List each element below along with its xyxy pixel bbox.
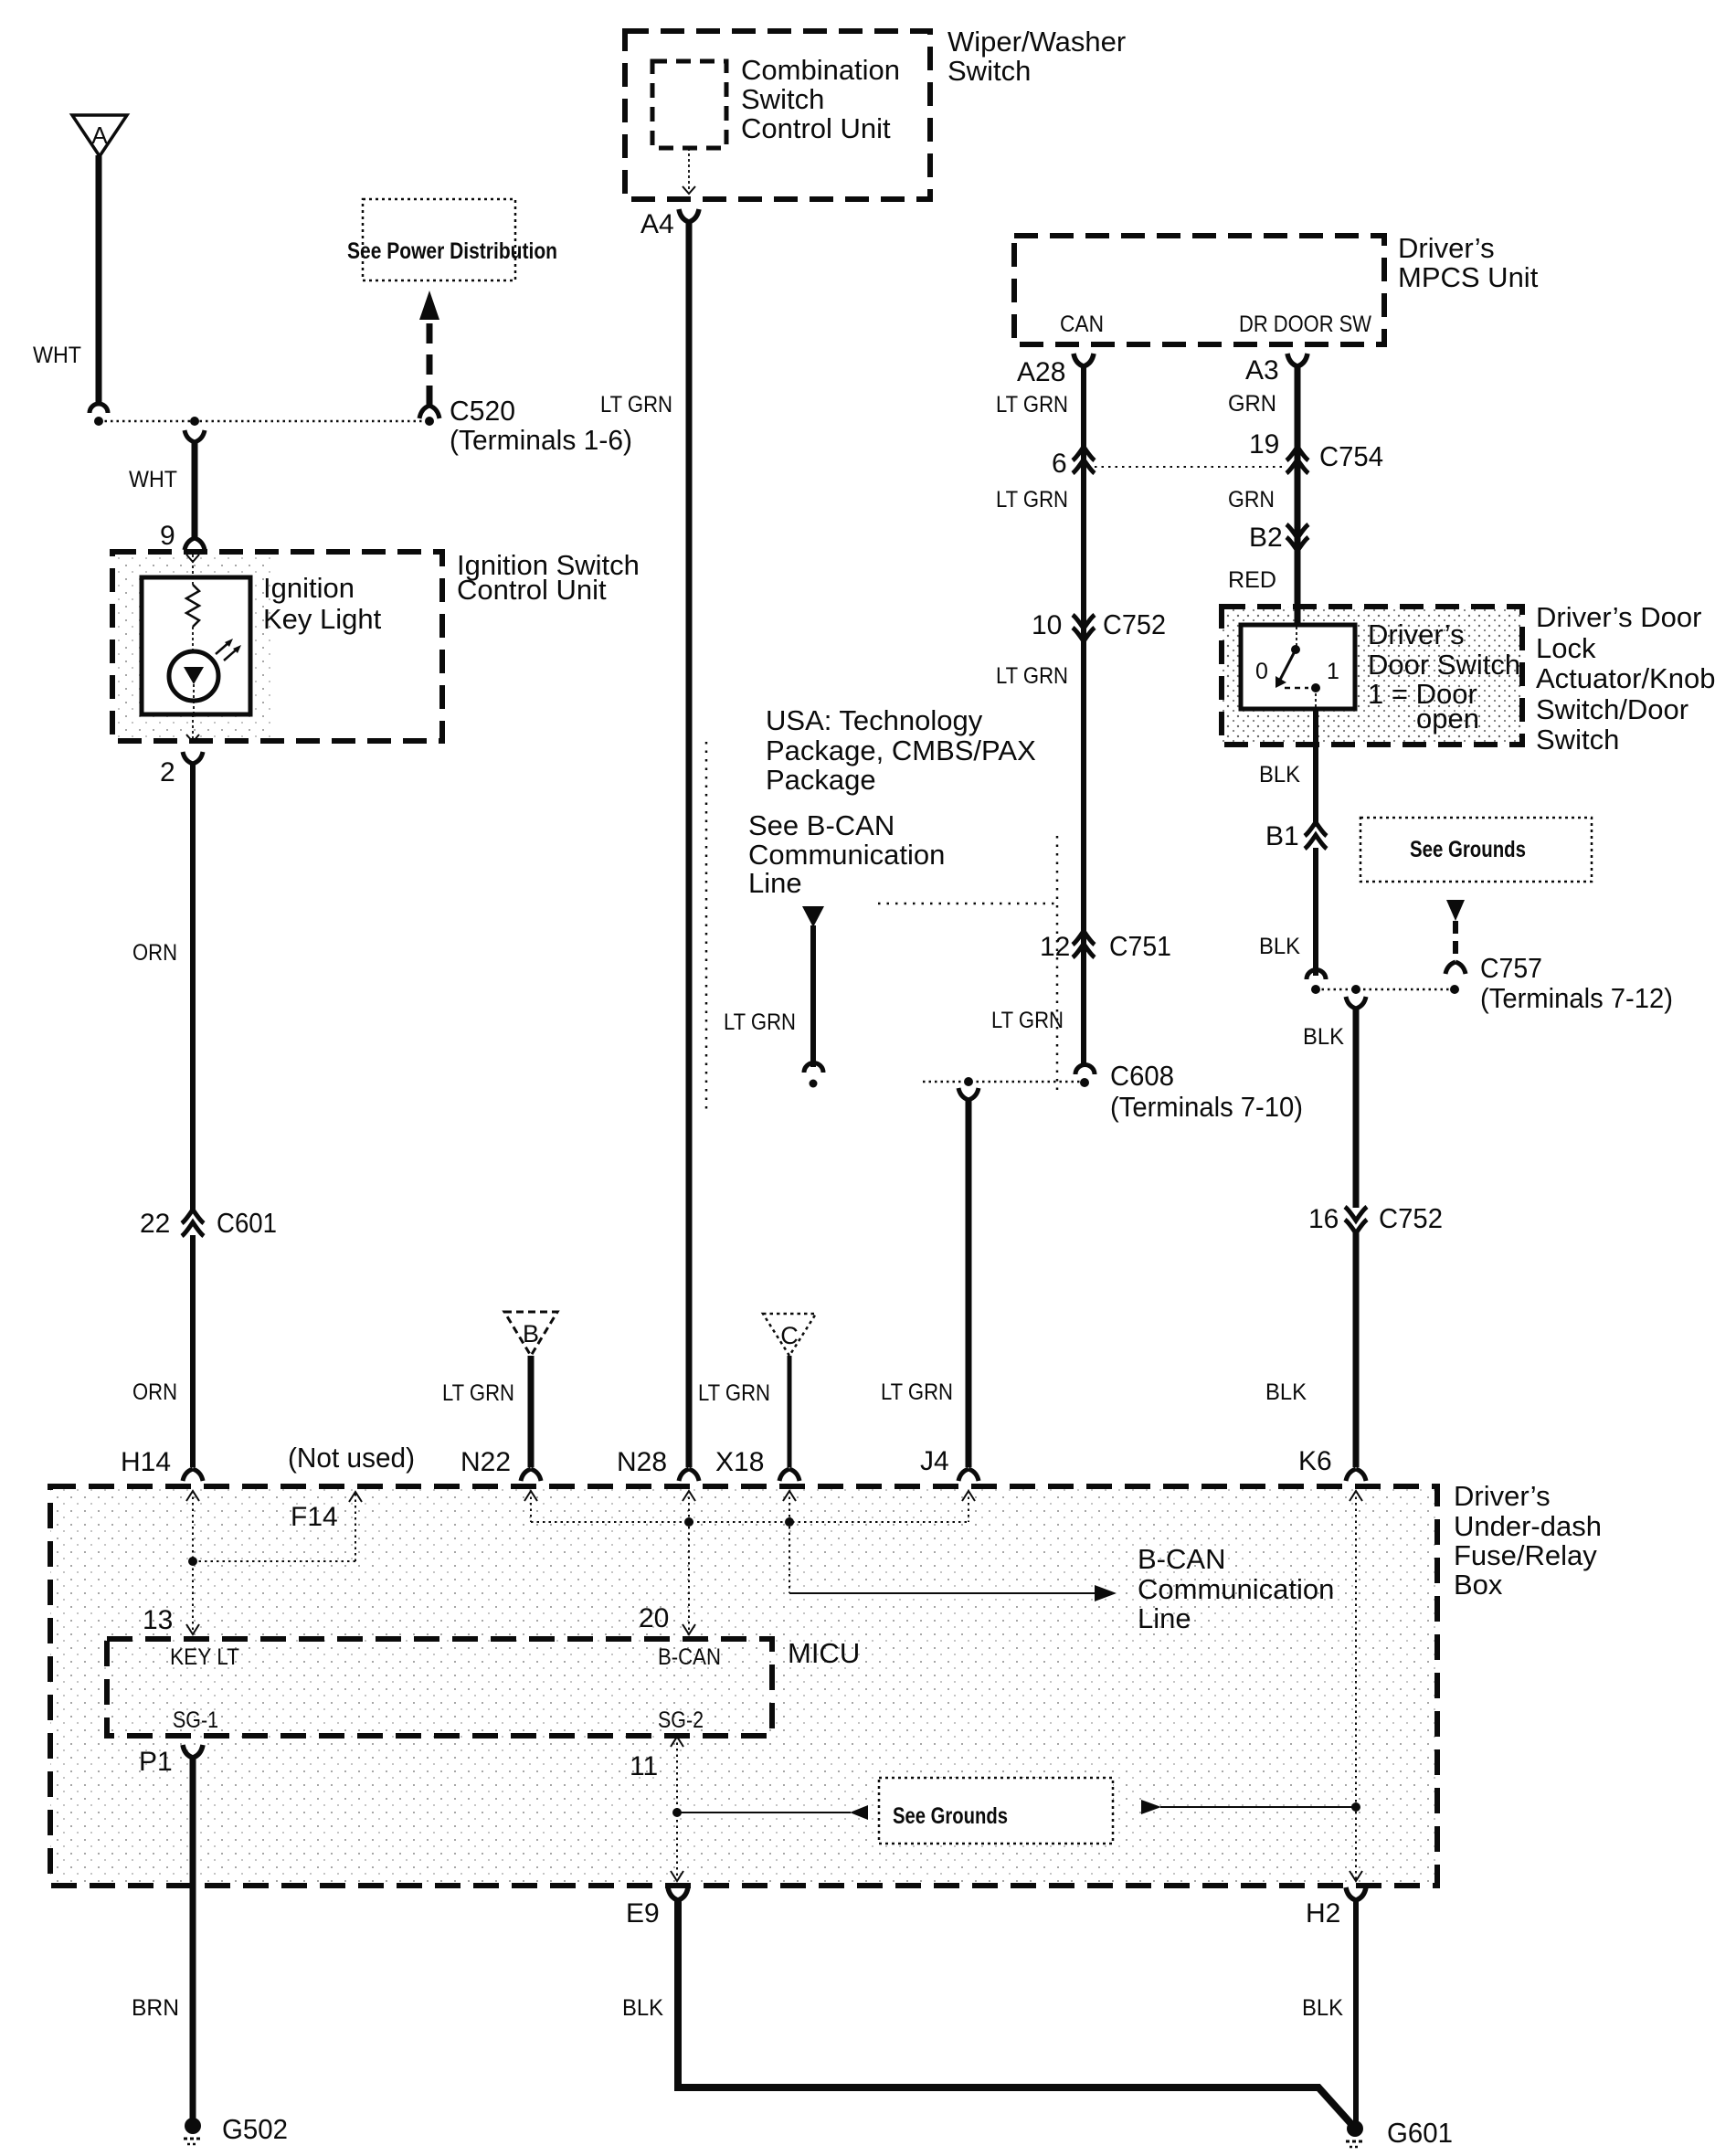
svg-text:19: 19 [1249, 429, 1279, 460]
connector 19 C754 [1249, 429, 1383, 473]
wire LT GRN 12 to C608 [991, 1008, 1095, 1087]
ground G601 [1346, 2117, 1453, 2149]
svg-text:LT GRN: LT GRN [996, 487, 1068, 513]
svg-text:F14: F14 [291, 1502, 338, 1532]
wire K6 to H2 dotted [1350, 1491, 1362, 1881]
svg-text:12: 12 [1040, 932, 1070, 962]
node C757 dotted junction [1316, 985, 1455, 994]
combination switch control unit [652, 54, 900, 194]
svg-text:DR DOOR SW: DR DOOR SW [1239, 312, 1371, 337]
svg-text:C751: C751 [1109, 930, 1171, 962]
pin A4 [640, 209, 699, 239]
svg-text:BLK: BLK [1303, 1024, 1344, 1050]
svg-text:RED: RED [1228, 567, 1276, 593]
svg-text:G601: G601 [1387, 2117, 1453, 2149]
svg-text:C752: C752 [1103, 608, 1166, 640]
svg-text:E9: E9 [626, 1898, 660, 1929]
ignition key light lamp [142, 555, 382, 714]
svg-text:Control Unit: Control Unit [741, 112, 891, 144]
pin H2 [1306, 1887, 1366, 1929]
svg-text:LT GRN: LT GRN [996, 663, 1068, 689]
pin H14 [121, 1447, 171, 1477]
wire B-CAN communication line arrow [789, 1543, 1334, 1634]
pin F14 (Not used) [288, 1442, 415, 1532]
svg-text:B-CAN: B-CAN [1138, 1543, 1225, 1575]
wire LT GRN C608 to J4 [881, 1088, 979, 1481]
svg-text:WHT: WHT [33, 343, 81, 368]
svg-text:ORN: ORN [132, 1379, 177, 1405]
svg-text:Communication: Communication [748, 839, 945, 871]
svg-text:H2: H2 [1306, 1898, 1340, 1929]
connector triangle C [763, 1314, 816, 1356]
svg-text:A: A [91, 122, 108, 149]
svg-text:BLK: BLK [1302, 1995, 1343, 2021]
connector 16 C752 [1308, 1202, 1443, 1234]
svg-text:KEY LT: KEY LT [170, 1644, 239, 1670]
wire link 6 to C754 dotted [1095, 466, 1286, 468]
svg-text:LT GRN: LT GRN [698, 1380, 770, 1406]
svg-text:C608: C608 [1110, 1060, 1174, 1092]
pin 13 [143, 1605, 173, 1635]
svg-text:9: 9 [160, 521, 175, 551]
svg-text:GRN: GRN [1228, 487, 1275, 513]
pin J4 [920, 1446, 949, 1476]
svg-text:Actuator/Knob: Actuator/Knob [1536, 662, 1715, 694]
svg-text:BRN: BRN [132, 1995, 179, 2021]
connector 10 C752 [1032, 608, 1166, 641]
svg-text:See B-CAN: See B-CAN [748, 809, 894, 841]
svg-text:SG-2: SG-2 [658, 1707, 704, 1733]
svg-text:WHT: WHT [129, 467, 177, 492]
Driver's MPCS Unit box [1014, 232, 1539, 344]
See Grounds box upper [1360, 818, 1592, 882]
svg-text:C754: C754 [1319, 440, 1383, 472]
svg-text:Switch/Door: Switch/Door [1536, 693, 1688, 725]
svg-text:16: 16 [1308, 1204, 1339, 1234]
wire N22 N28 X18 J4 dotted bus [524, 1491, 975, 1634]
MICU box [107, 1637, 860, 1736]
Wiper/Washer Switch box [625, 26, 1126, 199]
driver's door switch [1241, 607, 1520, 735]
Driver's Under-dash Fuse/Relay Box [50, 1480, 1602, 1886]
svg-text:6: 6 [1052, 449, 1067, 479]
connector triangle A [72, 115, 127, 156]
connector B2 [1249, 523, 1308, 553]
Driver's Door Lock Actuator box [1222, 601, 1715, 756]
pin N28 [617, 1447, 667, 1477]
wire BLK E9 to G601 [622, 1900, 1351, 2124]
svg-text:(Terminals 1-6): (Terminals 1-6) [450, 424, 632, 456]
svg-text:Key Light: Key Light [263, 603, 382, 635]
wire BLK junction to 16 [1303, 997, 1366, 1208]
svg-text:Combination: Combination [741, 54, 900, 86]
svg-text:J4: J4 [920, 1446, 949, 1476]
svg-text:Package: Package [766, 764, 876, 796]
svg-text:CAN: CAN [1060, 312, 1104, 337]
svg-text:Wiper/Washer: Wiper/Washer [947, 26, 1126, 58]
pin P1 [139, 1745, 203, 1777]
svg-text:C757: C757 [1480, 952, 1542, 984]
svg-text:B1: B1 [1265, 821, 1299, 851]
svg-text:1: 1 [1327, 659, 1339, 684]
svg-text:C752: C752 [1379, 1202, 1443, 1234]
svg-text:C: C [780, 1322, 799, 1349]
svg-text:Box: Box [1454, 1569, 1503, 1601]
svg-text:Control Unit: Control Unit [457, 574, 607, 606]
svg-text:LT GRN: LT GRN [996, 392, 1068, 417]
svg-text:A3: A3 [1245, 355, 1279, 386]
svg-text:(Not used): (Not used) [288, 1442, 415, 1474]
svg-text:See Grounds: See Grounds [1410, 837, 1526, 862]
svg-text:BLK: BLK [1259, 934, 1300, 959]
svg-text:Door Switch: Door Switch [1368, 649, 1520, 681]
wire LT GRN C to X18 [698, 1356, 799, 1481]
wire to see grounds left [677, 1805, 868, 1820]
pin E9 [626, 1887, 688, 1929]
svg-text:BLK: BLK [1259, 762, 1300, 787]
svg-text:Package, CMBS/PAX: Package, CMBS/PAX [766, 735, 1036, 766]
pin A28 [1017, 354, 1094, 387]
connector 12 C751 [1040, 930, 1171, 962]
wire to see grounds right [1141, 1800, 1356, 1814]
svg-text:A4: A4 [640, 209, 674, 239]
svg-text:0: 0 [1255, 659, 1268, 684]
svg-text:Lock: Lock [1536, 632, 1596, 664]
svg-text:(Terminals 7-10): (Terminals 7-10) [1110, 1091, 1303, 1123]
svg-text:B: B [523, 1320, 539, 1347]
connector B1 [1265, 821, 1327, 851]
connector triangle B [504, 1312, 557, 1356]
svg-text:22: 22 [140, 1209, 170, 1239]
node C608 dotted junction [923, 1060, 1303, 1123]
svg-text:LT GRN: LT GRN [442, 1380, 514, 1406]
svg-text:B2: B2 [1249, 523, 1283, 553]
wire H14 to pin 13 with F14 branch [186, 1491, 362, 1634]
wire C520 dotted bus [99, 417, 434, 426]
svg-text:LT GRN: LT GRN [724, 1009, 796, 1035]
svg-text:N22: N22 [460, 1447, 511, 1477]
svg-text:11: 11 [630, 1751, 658, 1781]
wire GRN A3 to C754 [1228, 366, 1297, 607]
svg-text:Switch: Switch [741, 83, 824, 115]
svg-text:See Grounds: See Grounds [893, 1803, 1008, 1829]
wire LT GRN 6 to 10 [996, 487, 1068, 513]
svg-text:open: open [1416, 703, 1479, 735]
svg-text:C601: C601 [217, 1207, 277, 1239]
svg-text:Driver’s: Driver’s [1398, 232, 1495, 264]
Ignition Switch Control Unit box [112, 549, 640, 741]
node USA technology package region [706, 704, 1057, 1109]
wire See B-CAN communication line [724, 809, 945, 1088]
svg-text:LT GRN: LT GRN [991, 1008, 1064, 1033]
pin A3 [1245, 354, 1307, 386]
svg-text:MICU: MICU [788, 1637, 860, 1669]
svg-text:X18: X18 [715, 1447, 764, 1477]
svg-text:20: 20 [639, 1603, 669, 1633]
wire LT GRN A4 to N28 [600, 222, 699, 1481]
ground G502 [184, 2113, 288, 2145]
wire LT GRN A28 to 6 [996, 366, 1084, 1066]
svg-text:Line: Line [1138, 1602, 1191, 1634]
wire WHT from A [33, 155, 108, 426]
svg-text:Driver’s Door: Driver’s Door [1536, 601, 1701, 633]
svg-text:Fuse/Relay: Fuse/Relay [1454, 1539, 1597, 1571]
connector C757 with arrow from grounds [1445, 900, 1673, 1014]
svg-text:Communication: Communication [1138, 1573, 1334, 1605]
pin 20 [639, 1603, 669, 1633]
wire BLK H2 to G601 [1302, 1900, 1356, 2121]
svg-text:LT GRN: LT GRN [881, 1379, 953, 1405]
wire GRN C754 to B2 [1228, 487, 1275, 513]
wire RED B2 to door switch [1228, 567, 1276, 593]
svg-text:K6: K6 [1298, 1446, 1332, 1476]
pin 2 [160, 714, 203, 787]
svg-text:B-CAN: B-CAN [658, 1644, 721, 1670]
svg-text:MPCS Unit: MPCS Unit [1398, 261, 1539, 293]
wire BLK door switch to B1 [1259, 709, 1316, 827]
wire LT GRN 10 to 12 [996, 663, 1068, 689]
wire ORN lower to H14 [132, 1235, 203, 1481]
pin N22 [460, 1447, 511, 1477]
svg-text:2: 2 [160, 757, 175, 787]
wire LT GRN B to N22 [442, 1356, 541, 1481]
wire BRN P1 to G502 [132, 1758, 193, 2119]
svg-text:Driver’s: Driver’s [1368, 618, 1465, 650]
pin X18 [715, 1447, 764, 1477]
svg-text:G502: G502 [222, 2113, 288, 2145]
wire BLK B1 to C757 junction [1259, 848, 1326, 994]
wire BLK 16 to K6 [1265, 1231, 1366, 1481]
svg-text:See Power Distribution: See Power Distribution [347, 238, 557, 264]
svg-text:A28: A28 [1017, 357, 1065, 387]
svg-text:Ignition: Ignition [263, 572, 355, 604]
svg-text:P1: P1 [139, 1747, 173, 1777]
svg-text:Line: Line [748, 867, 802, 899]
svg-text:Under-dash: Under-dash [1454, 1510, 1602, 1542]
svg-text:C520: C520 [450, 395, 515, 427]
svg-text:SG-1: SG-1 [173, 1707, 218, 1733]
svg-text:13: 13 [143, 1605, 173, 1635]
svg-text:Driver’s: Driver’s [1454, 1480, 1551, 1512]
See Grounds box lower [879, 1778, 1113, 1844]
connector 22 C601 [140, 1207, 277, 1239]
pin K6 [1298, 1446, 1332, 1476]
See Power Distribution box [347, 199, 557, 280]
svg-text:GRN: GRN [1228, 391, 1276, 417]
svg-text:10: 10 [1032, 610, 1062, 640]
svg-text:N28: N28 [617, 1447, 667, 1477]
svg-text:Switch: Switch [1536, 724, 1619, 756]
svg-text:BLK: BLK [1265, 1379, 1307, 1405]
svg-text:Switch: Switch [947, 55, 1031, 87]
connector 6 [1052, 447, 1095, 479]
svg-text:USA: Technology: USA: Technology [766, 704, 983, 736]
wire WHT to pin 9 [129, 430, 205, 551]
wire ORN upper [132, 764, 193, 1210]
svg-text:H14: H14 [121, 1447, 171, 1477]
svg-text:(Terminals 7-12): (Terminals 7-12) [1480, 982, 1673, 1014]
svg-text:ORN: ORN [132, 940, 177, 966]
svg-text:LT GRN: LT GRN [600, 392, 672, 417]
pin 11 wire SG-2 to E9 [630, 1737, 683, 1881]
svg-text:BLK: BLK [622, 1995, 663, 2021]
connector C520 with arrow to power distribution [419, 291, 632, 456]
